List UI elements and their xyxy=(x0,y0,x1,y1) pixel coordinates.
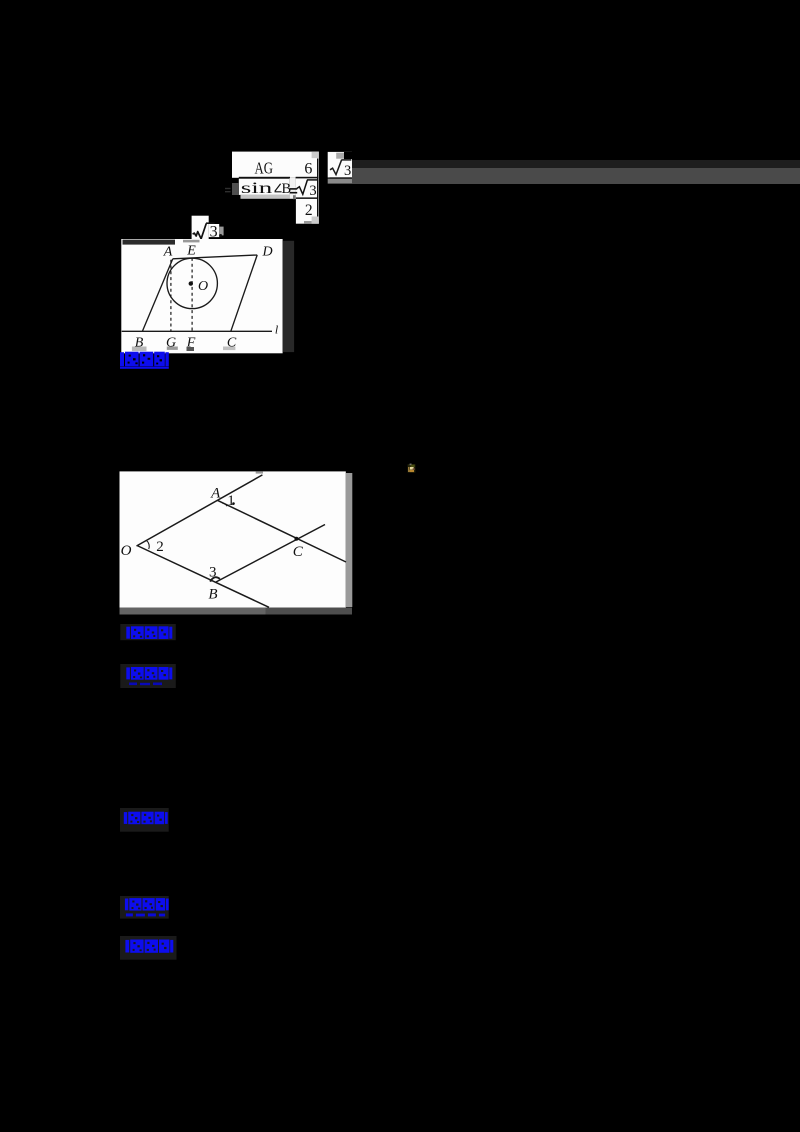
svg-text:E: E xyxy=(186,244,196,259)
svg-text:C: C xyxy=(227,336,237,351)
svg-text:6: 6 xyxy=(304,160,312,177)
svg-text:B: B xyxy=(135,336,144,351)
svg-text:3: 3 xyxy=(210,224,218,241)
svg-text:3: 3 xyxy=(309,183,316,199)
svg-text:2: 2 xyxy=(156,539,164,555)
svg-text:C: C xyxy=(293,544,304,560)
svg-text:O: O xyxy=(121,543,132,559)
svg-text:B: B xyxy=(281,181,291,197)
svg-text:F: F xyxy=(186,336,196,351)
svg-text:AG: AG xyxy=(255,158,273,177)
svg-text:sin: sin xyxy=(241,180,273,197)
svg-text:1: 1 xyxy=(227,493,235,509)
svg-text:3: 3 xyxy=(209,565,217,581)
svg-text:D: D xyxy=(261,245,272,260)
svg-text:A: A xyxy=(163,245,173,260)
svg-text:O: O xyxy=(198,279,208,294)
svg-text:B: B xyxy=(208,587,217,603)
svg-text:2: 2 xyxy=(305,202,313,219)
svg-text:3: 3 xyxy=(344,163,351,179)
svg-text:G: G xyxy=(166,336,176,351)
svg-text:A: A xyxy=(210,486,221,502)
